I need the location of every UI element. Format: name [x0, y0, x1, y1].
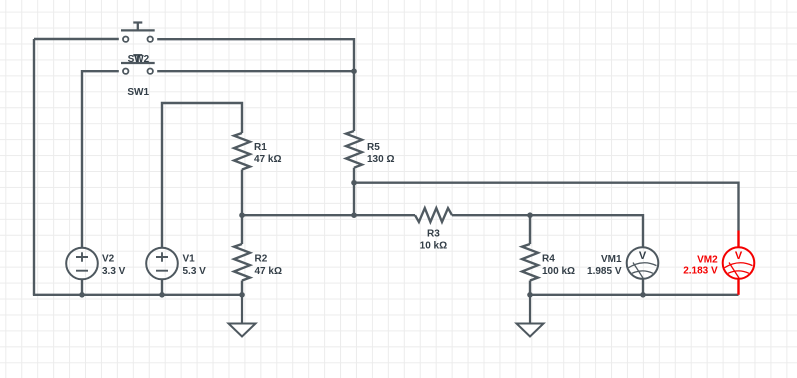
svg-text:R1: R1 [254, 142, 267, 153]
wire V1 bottom [161, 279, 163, 295]
resistor R1 [234, 133, 250, 170]
pushbutton switch SW1 [121, 55, 155, 74]
svg-text:5.3 V: 5.3 V [183, 266, 207, 277]
resistor R3 [415, 208, 452, 222]
svg-text:R2: R2 [255, 254, 268, 265]
wire R4 top [529, 215, 531, 244]
voltage source V2 [66, 248, 98, 280]
ground below R4 [517, 295, 544, 337]
node junction R4 top / middle rail [527, 212, 533, 218]
svg-text:R3: R3 [427, 228, 440, 239]
wire SW1 right lead [157, 70, 354, 72]
wire R3 right to VM1 top [452, 215, 643, 247]
wire middle rail to R3 [242, 214, 415, 216]
node junction V2 bottom [79, 292, 85, 298]
node junction V1 bottom [159, 292, 165, 298]
wire R2 bottom [241, 281, 243, 295]
svg-text:V2: V2 [102, 254, 115, 265]
svg-text:3.3 V: 3.3 V [102, 266, 126, 277]
node junction R5 bottom / VM2 feed [351, 180, 357, 186]
resistor R5 [346, 131, 362, 168]
node junction R5 branch / middle rail [351, 212, 357, 218]
wire R5 bottom [353, 168, 355, 216]
ground below R2 [229, 295, 256, 337]
svg-text:SW2: SW2 [128, 54, 150, 65]
svg-text:47 kΩ: 47 kΩ [254, 154, 281, 165]
node junction VM1 bottom [640, 292, 646, 298]
svg-text:100 kΩ: 100 kΩ [542, 266, 575, 277]
node junction SW1 right / R5 top [351, 68, 357, 74]
wire SW2 left lead [34, 38, 119, 40]
svg-text:1.985 V: 1.985 V [587, 266, 622, 277]
svg-text:R5: R5 [367, 142, 380, 153]
voltage source V1 [146, 248, 178, 280]
voltmeter VM1 [627, 247, 659, 279]
wire R1 bottom [241, 170, 243, 216]
wire VM2 bottom lead (red) [737, 279, 739, 295]
node junction R4 bottom / ground [527, 292, 533, 298]
wire VM1 bottom [642, 279, 644, 295]
wire V2 bottom [81, 279, 83, 295]
pushbutton switch SW2 [121, 23, 155, 42]
wire bottom rail left [33, 294, 242, 296]
svg-text:R4: R4 [542, 254, 555, 265]
wire VM2 feed [354, 183, 739, 231]
wire R4 bottom [529, 281, 531, 295]
svg-text:VM2: VM2 [697, 254, 718, 265]
node junction R1/R2 middle rail [239, 212, 245, 218]
svg-text:SW1: SW1 [127, 87, 149, 98]
svg-text:130 Ω: 130 Ω [367, 154, 394, 165]
wire R2 top [241, 215, 243, 244]
wire SW2 right lead to R5 top [157, 39, 354, 131]
svg-text:V: V [735, 250, 743, 262]
resistor R4 [522, 244, 538, 281]
wire VM2 top lead (red) [737, 231, 739, 248]
svg-text:V: V [639, 250, 647, 262]
wire bottom rail right [530, 294, 739, 296]
svg-text:47 kΩ: 47 kΩ [255, 266, 282, 277]
wire SW1 left lead to V2 top [82, 71, 119, 248]
svg-text:10 kΩ: 10 kΩ [420, 240, 447, 251]
svg-text:2.183 V: 2.183 V [683, 266, 718, 277]
svg-text:V1: V1 [183, 254, 196, 265]
resistor R2 [234, 244, 250, 281]
wire V1 top to R1 top [162, 103, 242, 248]
svg-text:VM1: VM1 [601, 254, 622, 265]
voltmeter VM2 (selected, red) [723, 247, 755, 279]
wire left rail [33, 39, 35, 295]
node junction R2 bottom / ground [239, 292, 245, 298]
